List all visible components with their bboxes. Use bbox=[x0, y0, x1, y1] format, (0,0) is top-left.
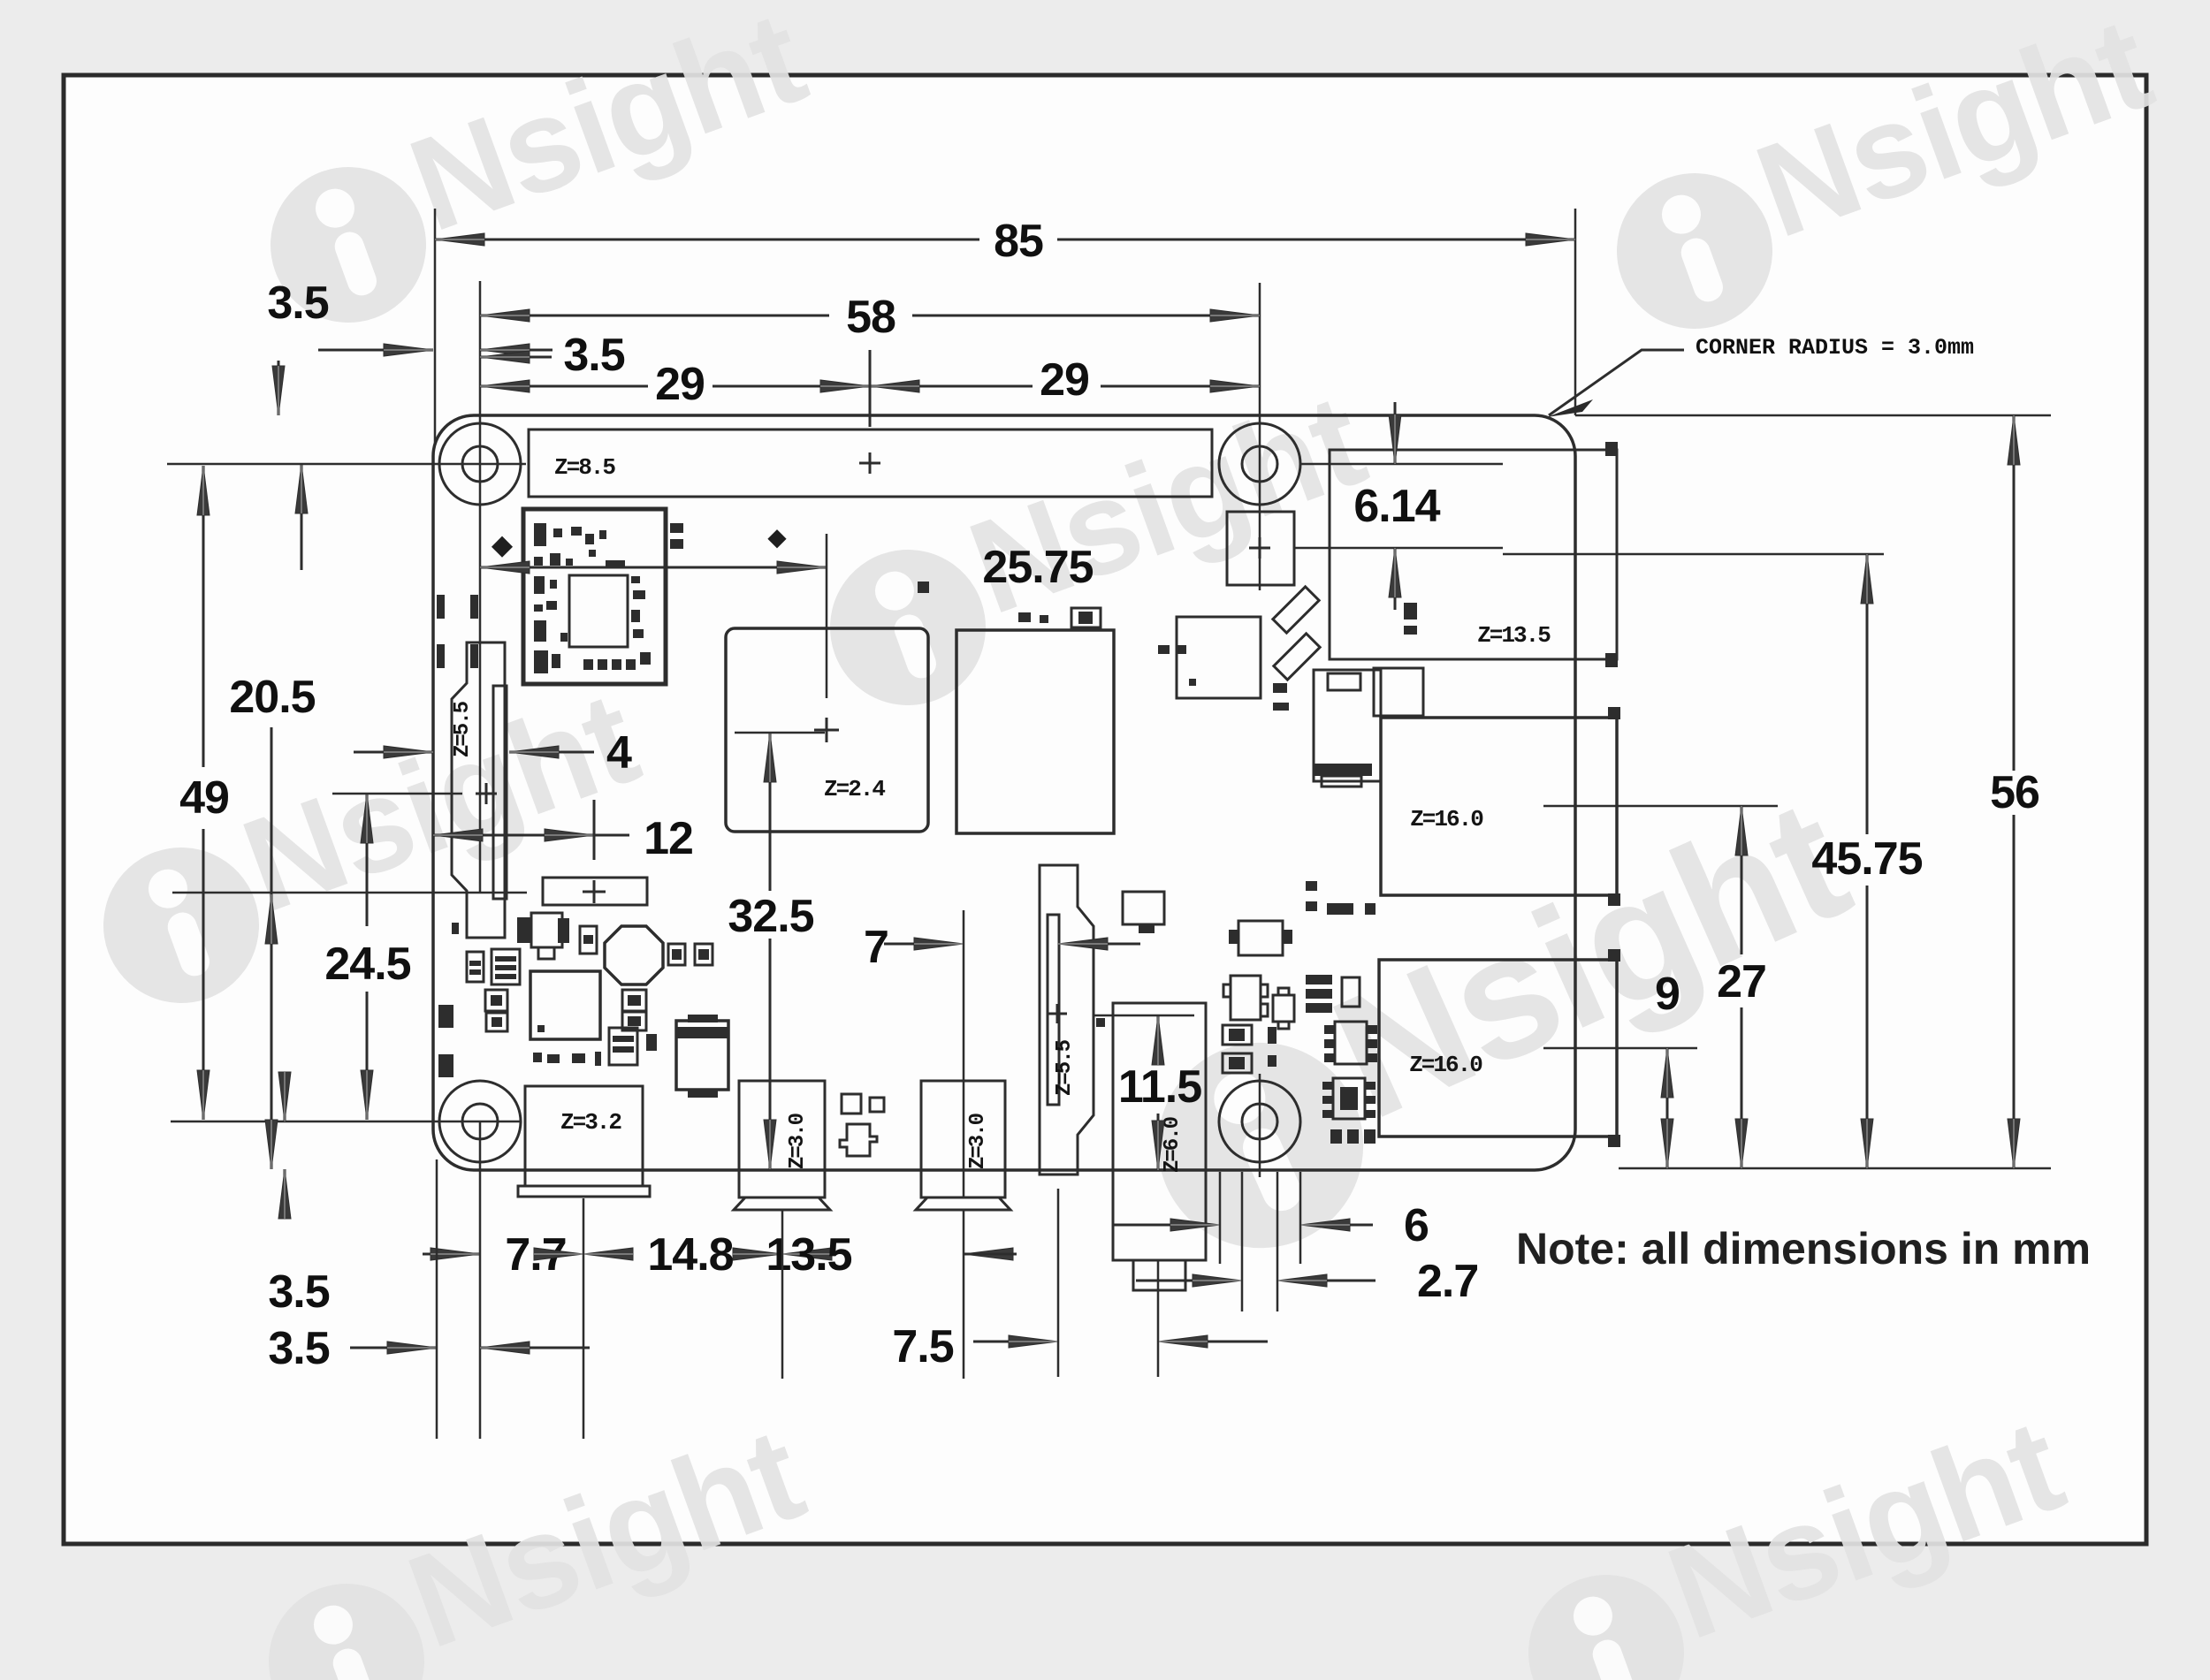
PCB board outline bbox=[433, 415, 1575, 1170]
ext line HDMI center down bbox=[781, 1210, 784, 1379]
mid-right passives cluster bbox=[1123, 892, 1164, 924]
svg-text:24.5: 24.5 bbox=[324, 939, 410, 990]
svg-text:56: 56 bbox=[1990, 767, 2039, 818]
dim 3.5 bottom vertical bbox=[284, 1073, 286, 1121]
SOIC U8 bbox=[1333, 1078, 1365, 1119]
HDMI connector J4 (Z=3.0) bbox=[739, 1081, 825, 1197]
capacitor bank left bbox=[467, 952, 484, 982]
chip U5 bbox=[1177, 617, 1261, 698]
svg-text:14.8: 14.8 bbox=[647, 1229, 733, 1281]
ext line audio center down bbox=[963, 1210, 965, 1379]
dim 12 bbox=[433, 834, 594, 837]
mounting hole H4 outer ring bbox=[1219, 1081, 1300, 1162]
DSI display connector J2 (Z=5.5) bbox=[452, 642, 505, 938]
audio jack J5 (Z=3.0) bbox=[921, 1081, 1005, 1197]
mounting hole H3 inner bbox=[462, 1104, 498, 1139]
ext line SoC center left bbox=[735, 732, 825, 734]
dim 3.5 top vertical arrows bbox=[278, 361, 280, 415]
capacitors right of inductor bbox=[668, 944, 685, 965]
svg-text:Z=6.0: Z=6.0 bbox=[1161, 1116, 1185, 1173]
power connector J3 (Z=3.2) bbox=[525, 1086, 643, 1186]
watermark bbox=[1587, 0, 2179, 351]
svg-text:Z=5.5: Z=5.5 bbox=[1053, 1039, 1077, 1096]
AV jack J7 (Z=6.0) bbox=[1113, 1003, 1206, 1260]
dim 3.5 bottom horizontal bbox=[350, 1347, 437, 1349]
svg-text:9: 9 bbox=[1655, 969, 1680, 1020]
ext line AV center down bbox=[1157, 1260, 1160, 1377]
dim 24.5 bbox=[366, 794, 369, 926]
SoC U1 (Z=2.4) bbox=[726, 628, 928, 832]
dim 3.5 hole-to-GPIO bbox=[480, 356, 552, 359]
LED D2 bbox=[1274, 634, 1320, 680]
corner radius leader bbox=[1549, 350, 1684, 415]
passives pairs bbox=[1223, 1025, 1252, 1045]
ext line board bottom right bbox=[1619, 1167, 2051, 1170]
svg-text:3.5: 3.5 bbox=[267, 277, 328, 329]
RAM U2 bbox=[956, 630, 1114, 833]
svg-text:Z=2.4: Z=2.4 bbox=[824, 776, 885, 802]
parts right of WiFi module bbox=[670, 523, 683, 533]
svg-text:Z=5.5: Z=5.5 bbox=[451, 701, 475, 757]
svg-text:Z=16.0: Z=16.0 bbox=[1410, 806, 1483, 832]
ext line PoE center right bbox=[1294, 547, 1503, 550]
ext line power center down bbox=[583, 1198, 585, 1439]
svg-text:29: 29 bbox=[1040, 354, 1089, 406]
dim 6 bottom bbox=[1112, 1224, 1171, 1227]
fiducial mark bbox=[492, 536, 513, 558]
svg-text:Z=3.0: Z=3.0 bbox=[966, 1113, 990, 1169]
dim 2.7 bbox=[1136, 1280, 1193, 1282]
inductor L1 octagon bbox=[605, 926, 663, 984]
parts between HDMI and audio bbox=[842, 1094, 861, 1114]
dim 4 bbox=[354, 751, 433, 754]
USB jack J10 (Z=16.0) bbox=[1379, 960, 1617, 1136]
dim 9 bbox=[1666, 1048, 1669, 1168]
svg-text:7: 7 bbox=[864, 922, 888, 973]
mounting hole H1 inner bbox=[462, 446, 498, 482]
svg-text:Z=3.2: Z=3.2 bbox=[560, 1109, 621, 1136]
svg-text:3.5: 3.5 bbox=[268, 1266, 329, 1318]
WiFi module U3 bbox=[523, 509, 666, 684]
passives row bbox=[1330, 1129, 1342, 1144]
USB jack J9 (Z=16.0) bbox=[1381, 718, 1617, 895]
svg-text:13.5: 13.5 bbox=[766, 1229, 851, 1281]
SOIC U7 bbox=[1335, 1022, 1367, 1064]
ext line hole4 vertical bbox=[1259, 1074, 1261, 1177]
dim 85 line bbox=[435, 239, 979, 241]
ext line SoC center vertical bbox=[826, 534, 828, 698]
dim 27 bbox=[1741, 806, 1743, 954]
svg-text:11.5: 11.5 bbox=[1118, 1061, 1201, 1113]
tick 12 right bbox=[593, 800, 596, 860]
ext line AV top bbox=[1094, 1015, 1194, 1017]
resistor row bbox=[533, 1053, 542, 1062]
svg-text:Z=16.0: Z=16.0 bbox=[1409, 1052, 1482, 1078]
mounting hole H1 outer ring bbox=[439, 423, 521, 505]
dim 20.5 bbox=[271, 727, 273, 1169]
watermark bbox=[1498, 1390, 2091, 1680]
mounting hole H4 inner bbox=[1242, 1104, 1277, 1139]
watermark bbox=[73, 663, 666, 1025]
svg-text:49: 49 bbox=[179, 772, 229, 824]
PMIC U4 bbox=[530, 971, 600, 1039]
ext line USB2 center bbox=[1543, 1047, 1697, 1050]
parts above RAM bbox=[1018, 612, 1031, 622]
svg-text:25.75: 25.75 bbox=[982, 542, 1093, 593]
svg-text:27: 27 bbox=[1717, 956, 1766, 1007]
dim 32.5 bbox=[769, 733, 772, 891]
dim 7.5 bbox=[973, 1341, 1010, 1343]
ext line ethernet center bbox=[1503, 553, 1884, 556]
transistor Q2 bbox=[1273, 988, 1294, 1029]
svg-text:45.75: 45.75 bbox=[1811, 833, 1922, 885]
svg-text:6: 6 bbox=[1404, 1200, 1429, 1251]
watermark bbox=[240, 0, 833, 345]
ext lines hole4 edges bbox=[1219, 1172, 1222, 1264]
capacitor stack C3 bbox=[609, 1028, 637, 1065]
ext line hole row bottom left bbox=[171, 1121, 522, 1123]
svg-text:32.5: 32.5 bbox=[728, 891, 813, 942]
dim 58 line bbox=[480, 315, 829, 317]
svg-text:Z=13.5: Z=13.5 bbox=[1477, 622, 1551, 649]
dim 25.75 bbox=[480, 566, 827, 569]
dim 3.5 top-left horizontal bbox=[318, 349, 433, 352]
mounting hole H3 outer ring bbox=[439, 1081, 521, 1162]
electrolytic cap C1 bbox=[676, 1021, 728, 1090]
dim 11.5 bbox=[1157, 1015, 1160, 1059]
microSD card slot J12 bbox=[1314, 670, 1381, 781]
ext line hole2 top bbox=[1259, 283, 1261, 590]
Ethernet jack J8 (Z=13.5) bbox=[1330, 450, 1617, 659]
svg-text:29: 29 bbox=[655, 359, 705, 410]
dim 49 bbox=[202, 466, 205, 767]
ext line audio center top bbox=[963, 910, 965, 1197]
PoE header J11 bbox=[1227, 512, 1294, 585]
ext line DSI slot bottom bbox=[172, 892, 527, 894]
small diamond fiducial bbox=[767, 529, 786, 548]
ext line DSI center bbox=[332, 793, 462, 795]
ext line board left down bbox=[436, 1159, 438, 1439]
mounting hole H2 inner bbox=[1242, 446, 1277, 482]
mounting hole H2 outer ring bbox=[1219, 423, 1300, 505]
CSI camera connector J6 (Z=5.5) bbox=[1040, 865, 1094, 1174]
dim 6.14 arrows bbox=[1394, 402, 1397, 464]
dim 7 bbox=[884, 943, 915, 946]
GPIO header J1 (Z=8.5) bbox=[529, 430, 1212, 497]
svg-text:Z=3.0: Z=3.0 bbox=[786, 1113, 810, 1169]
dim 29 left bbox=[480, 385, 648, 388]
ext line board right top bbox=[1574, 209, 1577, 415]
watermark large bbox=[1112, 761, 1889, 1281]
ext line hole1 top bbox=[479, 281, 482, 893]
battery connector strip bbox=[543, 878, 647, 905]
svg-text:12: 12 bbox=[644, 813, 693, 864]
svg-text:7.5: 7.5 bbox=[892, 1321, 953, 1372]
svg-text:Z=8.5: Z=8.5 bbox=[554, 454, 615, 481]
capacitor C2 with terminals bbox=[531, 913, 562, 947]
capacitors right of PMIC bbox=[622, 990, 646, 1011]
LED D1 bbox=[1273, 587, 1319, 633]
svg-text:2.7: 2.7 bbox=[1417, 1256, 1478, 1307]
ext line CSI center down bbox=[1057, 1189, 1060, 1377]
svg-text:58: 58 bbox=[846, 292, 895, 343]
small parts above microSD bbox=[1404, 603, 1417, 620]
dim 45.75 bbox=[1866, 554, 1869, 834]
tick GPIO center bbox=[869, 350, 872, 427]
ext line hole row top left bbox=[167, 463, 526, 466]
svg-text:4: 4 bbox=[606, 727, 632, 779]
svg-text:Note: all dimensions in mm: Note: all dimensions in mm bbox=[1516, 1224, 2091, 1273]
ext line board top right bbox=[1575, 414, 2051, 417]
svg-text:6.14: 6.14 bbox=[1353, 481, 1440, 532]
svg-text:20.5: 20.5 bbox=[229, 672, 315, 723]
ext line board left top bbox=[434, 209, 437, 444]
svg-text:3.5: 3.5 bbox=[268, 1323, 329, 1374]
ext line hole2 center right bbox=[1300, 463, 1503, 466]
watermark bbox=[239, 1399, 831, 1680]
small pads on left edge bbox=[437, 595, 445, 619]
crystal Y1 bbox=[1306, 975, 1332, 984]
svg-text:85: 85 bbox=[994, 216, 1043, 267]
watermark bbox=[800, 365, 1392, 727]
svg-text:3.5: 3.5 bbox=[563, 330, 624, 381]
dim 56 bbox=[2013, 415, 2016, 771]
svg-text:CORNER RADIUS = 3.0mm: CORNER RADIUS = 3.0mm bbox=[1696, 335, 1974, 361]
ext line USB1 center bbox=[1543, 805, 1778, 808]
power circuitry passives cluster bbox=[452, 923, 459, 934]
LAN chip U6 bbox=[1374, 668, 1423, 716]
ext line hole3 down bbox=[479, 1121, 482, 1439]
dim 7.7 bbox=[423, 1253, 480, 1256]
transistor Q1 bbox=[1223, 976, 1268, 1020]
dim 29 right bbox=[870, 385, 1033, 388]
